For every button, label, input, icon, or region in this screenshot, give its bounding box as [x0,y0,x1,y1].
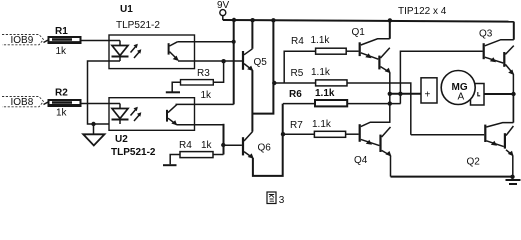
wire motor right to node [484,93,514,95]
node dot rail x234 [232,18,236,22]
wire rail down to opto collectors [233,20,235,104]
node IOB9 flag [2,35,44,47]
op-amp U1 optocoupler TLP521-2 [109,4,195,69]
caption 图 3 [267,192,285,206]
motor terminal right [471,84,485,106]
svg-text:Q1: Q1 [352,27,366,38]
svg-text:R3: R3 [197,68,210,79]
svg-text:Q2: Q2 [467,157,481,168]
svg-text:1k: 1k [201,140,213,151]
wire R7 right to Q4 base [346,133,359,135]
ground (R4 lower) [163,164,177,166]
node dot rail x252 [250,18,254,22]
wire bus from rail down and jog [252,20,273,114]
svg-text:TLP521-2: TLP521-2 [116,20,160,31]
wire Q4 emitter to bottom rail [390,156,392,177]
node dot bottom right [510,175,514,179]
wire Q6 base [224,144,242,146]
wire rail right corner down to Q3 collector [513,22,515,40]
transistor Q5 [242,49,267,71]
svg-text:IOB9: IOB9 [11,35,34,46]
resistor R6 (1.1k) [289,88,347,106]
wire R5 right to Q2 base riser [347,83,411,135]
wire Q2 emitter down to ground [512,155,514,176]
resistor R4 (1k, lower) [179,140,213,158]
wire bottom ground rail [391,176,513,178]
svg-text:U1: U1 [120,4,133,15]
wire R3 right to node A [213,61,223,82]
transistor Q6 [242,131,271,158]
transistor Q1 (TIP122 darlington) [352,27,391,73]
svg-text:R1: R1 [55,26,68,37]
svg-text:U2: U2 [115,134,128,145]
svg-text:1.1k: 1.1k [311,35,331,46]
node dot R7/Q6 emitter riser [281,132,285,136]
transistor Q3 (TIP122 darlington) [479,29,514,76]
svg-text:R4: R4 [291,36,304,47]
resistor R3 [181,68,214,101]
resistor R4 (1.1k) [291,35,346,54]
ground (opto LEDs) [83,124,104,146]
wire Q6 emitter to R6/R7 riser [253,104,283,176]
wire Q1 emitter down to Q4 collector [389,72,391,122]
node dot U1emitter/R3 [221,59,225,63]
svg-text:+: + [425,90,431,101]
mark in right terminal [478,92,480,96]
wire Q2 base [411,134,484,136]
wire IOB8 to R2 [44,102,50,105]
node dot rail x273 [271,18,275,22]
wire Q3 base link from motor-left node [400,51,482,103]
node IOB8 flag [2,97,44,109]
svg-text:Q4: Q4 [354,155,368,166]
wire R6 right to Q3 base riser [347,103,400,105]
svg-text:3: 3 [279,195,285,205]
resistor R5 (1.1k) [291,67,348,86]
wire IOB9 to R1 [44,40,50,43]
phototransistor U2 [166,110,168,122]
wire motor left terminal [390,93,421,95]
ground (R3) [166,91,180,93]
wire U1 emitter to Q5 base [178,60,242,62]
svg-text:1.1k: 1.1k [315,88,335,99]
wire Q3 emitter down to motor right / Q2 collector [512,74,514,123]
svg-text:R6: R6 [289,89,302,100]
svg-text:1.1k: 1.1k [311,67,331,78]
wire R6 left [283,103,315,105]
svg-text:A: A [458,92,465,103]
node dot motor left / Q3 base riser [398,92,402,96]
node dot LED cathodes junction [91,122,95,126]
svg-text:R4: R4 [179,140,192,151]
wire R5 left to bus [273,82,315,84]
op-amp U2 optocoupler TLP521-2 [109,98,195,158]
node dot bus/R5 [272,81,276,85]
LED inside U2 [119,104,121,114]
svg-text:1.1k: 1.1k [312,119,332,130]
motor MG A [441,71,475,105]
wire U1 collector to 9V rail [177,41,233,43]
wire 9V rail [223,20,514,22]
transistor Q2 (TIP122 darlington) [467,123,514,168]
svg-text:TLP521-2: TLP521-2 [111,147,156,158]
wire U2 emitter to Q6 base node [177,124,224,126]
wire Q1 collector to rail [389,21,391,39]
9V supply terminal [217,0,230,20]
wire Q5 emitter down to Q6 collector [251,70,253,131]
svg-text:IOB8: IOB8 [11,97,34,108]
light arrows U2 [131,108,138,116]
resistor R7 (1.1k) [290,119,346,137]
svg-text:1k: 1k [56,108,68,119]
wire Q5 collector to rail [251,20,253,49]
resistor R1 [49,26,81,57]
wire R4 left to ground [170,155,180,165]
svg-text:1k: 1k [56,46,68,57]
resistor R2 [49,88,81,119]
svg-text:1k: 1k [201,90,213,101]
motor terminal left [421,78,437,103]
LED inside U1 [119,41,121,51]
wire R7 left [283,133,314,135]
svg-text:R7: R7 [290,120,303,131]
light arrows U1 [131,45,138,53]
svg-text:R5: R5 [291,68,304,79]
wire R2 to U2 [81,103,121,105]
node dot U1 collector [232,40,236,44]
svg-text:TIP122 x 4: TIP122 x 4 [398,6,447,17]
wire Q2 collector up to motor right node [512,94,514,123]
wire U1 cathode to ground [88,61,121,124]
ground (bottom right) [506,180,521,184]
node dot motor right [511,92,515,96]
wire U2 collector to rail vertical [176,103,234,105]
node dot R6/Q4 collector line [388,101,392,105]
phototransistor U1 [168,43,170,54]
svg-text:R2: R2 [55,88,68,99]
wire R1 to U1 [81,40,121,42]
node dot Q6 base / R4 [221,143,225,147]
wire R4 left [284,51,315,83]
svg-text:Q3: Q3 [479,29,493,40]
node dot motor left / Q1e [388,92,392,96]
wire R3 left to ground [172,82,180,91]
transistor Q4 (TIP122 darlington) [354,122,391,166]
svg-text:Q6: Q6 [258,143,272,154]
svg-text:Q5: Q5 [254,57,268,68]
wire R4 right to Q6 base node [213,154,224,156]
wire R4 right to Q1 base [346,50,358,52]
